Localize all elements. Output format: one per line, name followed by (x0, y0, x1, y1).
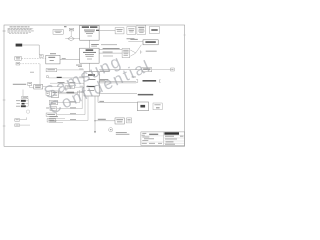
label: RJ45 (16, 105, 20, 108)
wire: RJ bus (25, 99, 29, 107)
label: on LVDS wire (62, 57, 66, 60)
speaker circle (26, 110, 29, 113)
box: 1394 (dark) (22, 103, 25, 105)
box: LVDS conn small (39, 55, 43, 58)
box: top row 4 MDC (149, 27, 159, 33)
box: TPM neighbor (153, 103, 162, 110)
label: CRT row (13, 83, 26, 86)
label: 1394 (17, 102, 20, 105)
pin label: CPU right (96, 30, 99, 31)
logo band (dark) (164, 132, 179, 134)
wire: MDC to ICH (57, 69, 84, 71)
box: HDD (115, 118, 124, 124)
label: jack wire 4 (70, 118, 76, 121)
wire: mini card to antenna (152, 69, 171, 71)
label: PCIE WLAN (100, 71, 110, 72)
title block texts right (165, 136, 183, 145)
label: memory row 3 faint (103, 55, 113, 58)
title block texts left (142, 133, 162, 144)
bracket: new card right (159, 80, 160, 83)
box: TV encoder (34, 85, 43, 90)
label: SATA HDD (98, 119, 106, 120)
label: bluetooth (67, 92, 74, 93)
label: channel A (103, 47, 120, 50)
wire: bluetooth row (58, 92, 84, 94)
wire: CPU to debug box (99, 30, 115, 32)
box: RJ11 (dark) (21, 100, 26, 102)
note circle (109, 128, 113, 132)
bus merge bracket (130, 45, 141, 56)
wire: inverter to panel (21, 57, 45, 59)
wire: audio jack 4 (56, 96, 88, 120)
label: bottom line 1 (49, 115, 58, 118)
label: jack wire 3 (70, 112, 76, 115)
title block (141, 132, 185, 146)
box: LCD connector (dark) (16, 44, 23, 47)
label: LPC (99, 100, 104, 103)
box: top row 1 (115, 28, 124, 34)
label: NEW CARD 54 (143, 80, 157, 82)
box: RJ45 (dark) (21, 105, 26, 107)
box: thermal sensor (53, 30, 63, 35)
label: jack wire 2 (70, 106, 76, 109)
wire: bottom line 1 (49, 117, 65, 119)
label: FSB (91, 43, 99, 46)
wire: to SODIMM (128, 40, 143, 42)
label: DMI (76, 64, 82, 67)
wire: backlight drop (39, 64, 41, 85)
wire: TV to ICH (43, 86, 62, 88)
note text (116, 131, 127, 134)
box: CRT conn (28, 82, 32, 85)
box: ext speaker jack (49, 100, 58, 104)
box: LCD panel block (46, 55, 60, 64)
border tick left low (3, 125, 6, 127)
label: modem row (57, 77, 62, 78)
wire: express card (99, 93, 137, 95)
wire: SATA to HDD (95, 120, 115, 122)
wire: panel to MCH LVDS (60, 59, 80, 61)
label: LVDS above (50, 52, 56, 55)
box: inverter (15, 57, 22, 61)
wire: lan drop (22, 90, 24, 97)
box: ICH U3 (84, 72, 99, 96)
box: power sw 1 (15, 119, 20, 122)
bracket: new card left (136, 80, 138, 83)
wire: audio jack 1 (58, 90, 80, 103)
label: usb tiny (30, 71, 34, 74)
wire: audio jack 2 (57, 90, 83, 109)
wire: SATA drop (94, 96, 96, 131)
label: camera row (58, 81, 65, 84)
box: audio codec (51, 91, 58, 97)
box: lan magnetics (22, 96, 28, 99)
box: memory buffer (122, 49, 130, 58)
border tick left (notes) (3, 30, 6, 32)
component: modem small (47, 76, 49, 78)
wire: audio jack 3 (57, 96, 85, 115)
box: power sw 2 (15, 124, 20, 127)
wire: memory channel A (99, 49, 122, 51)
box: audio aux small (46, 92, 49, 95)
wire: ICH to TPM (98, 96, 137, 102)
label: express card (138, 94, 153, 96)
box: HDD conn (127, 118, 132, 123)
wire: LCD to panel link (22, 45, 39, 55)
pin labels: ICH left (79, 69, 83, 87)
wire: sw2 (20, 124, 31, 126)
box: antenna (171, 68, 175, 71)
wire: sw1 (20, 117, 27, 119)
label: channel B (103, 51, 113, 54)
box: lamp tiny (16, 63, 20, 66)
wire: fan to symbol (70, 31, 72, 37)
wire: USB pair upper (99, 80, 136, 82)
border tick left mid (3, 99, 6, 101)
wire: bottom line 2 (49, 121, 63, 123)
box: MCH U2 (80, 48, 100, 63)
border tick right (183, 34, 185, 36)
box: mini card (142, 68, 152, 72)
wire: USB pair lower (99, 82, 136, 84)
wire: DMI MCH-ICH (88, 63, 90, 71)
box: top row 3 (137, 25, 146, 34)
wire: camera row (50, 82, 84, 84)
box: mobile processor U1 (80, 26, 100, 41)
label: USB (100, 78, 109, 81)
label: DDR2 533 (146, 50, 157, 53)
box: MDC modem (46, 69, 57, 72)
label: above new card (132, 76, 136, 79)
wire: FSB CPU-MCH (88, 40, 90, 48)
box: TPM (137, 102, 148, 111)
wire: CRT to TV box (29, 85, 33, 87)
label: RJ11 (16, 99, 20, 102)
box: int mic (46, 113, 57, 116)
wire: lamp row (20, 63, 40, 65)
wire: audio link (59, 91, 84, 94)
wire: ICH to mini card (99, 69, 142, 71)
junction: SATA (94, 120, 95, 121)
label under top row 2/3 (127, 37, 135, 40)
label: memory row faint (101, 43, 117, 46)
box: mic in jack (47, 119, 56, 122)
bracket: DDR note (140, 50, 142, 54)
page border (4, 25, 185, 146)
fan symbol (65, 37, 79, 41)
label: jack wire 1 (70, 100, 76, 103)
dash: top note (64, 25, 67, 28)
box: camera (65, 86, 74, 89)
box: top row 2 (127, 27, 136, 35)
notes text block (7, 27, 34, 34)
arrow: power down (94, 131, 96, 133)
wire: camera to ICH (74, 86, 84, 88)
box: fan header (69, 28, 73, 31)
wire: modem row (48, 77, 84, 79)
label: DDR above sodimm wire (130, 38, 137, 41)
label: bottom line 2 (49, 119, 56, 122)
box: SODIMM X2 (143, 40, 158, 45)
wire: memory channel B (99, 52, 122, 54)
label: HD audio (67, 91, 74, 94)
box: headphone jack (46, 107, 57, 111)
